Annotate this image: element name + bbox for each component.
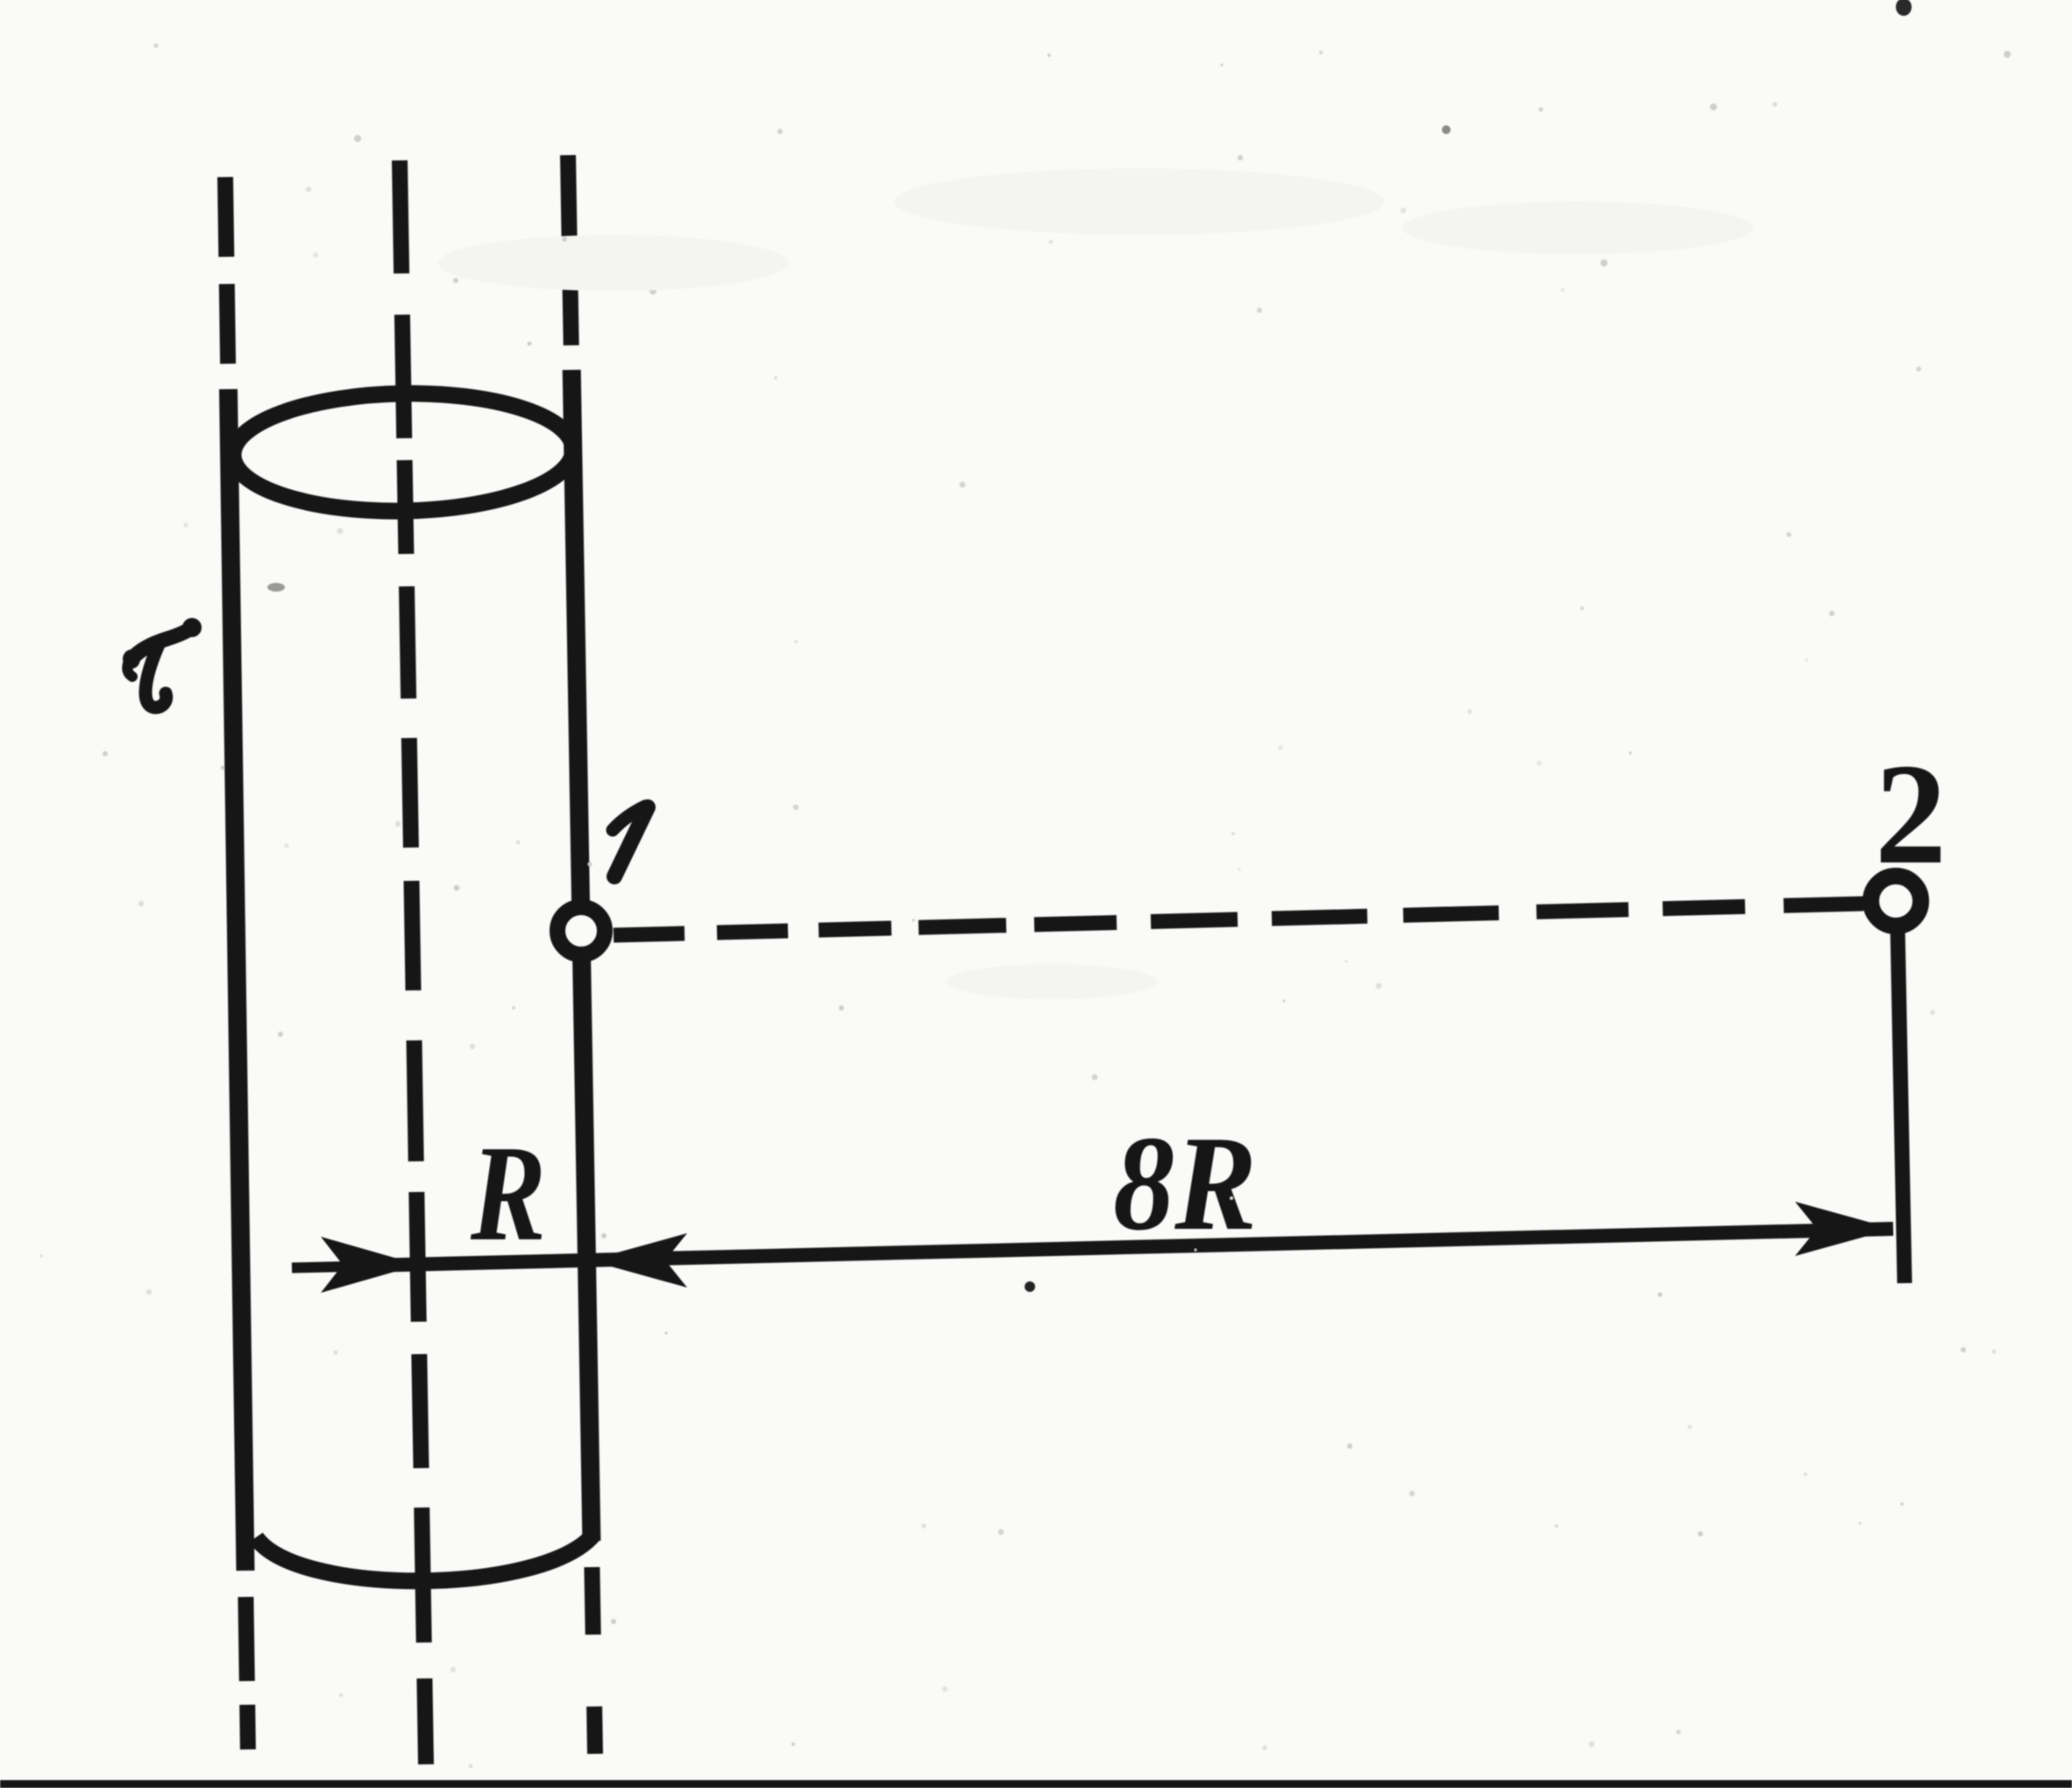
right surface dashed extension (above and below cylinder): [568, 155, 595, 1754]
point 2 (small circle): [1871, 876, 1921, 926]
arrowhead at cylinder right edge, pointing left (R dimension): [589, 1233, 687, 1288]
svg-text:2: 2: [1875, 734, 1947, 894]
dashed sight line from point 1 to point 2: [614, 904, 1863, 935]
drop line below point 2: [1898, 927, 1905, 1283]
tau right terminal blob: [182, 618, 202, 637]
scanner black bar at bottom edge: [0, 1780, 2072, 1788]
dimension line tail left of R arrow: [292, 1266, 349, 1268]
svg-text:R: R: [470, 1117, 546, 1269]
scan speck at top right: [1896, 0, 1912, 16]
svg-text:8R: 8R: [1113, 1108, 1257, 1259]
cylinder top ellipse: [232, 391, 574, 514]
cylinder bottom arc: [256, 1534, 594, 1581]
dimension line (R and 8R): [343, 1229, 1893, 1266]
arrowhead at axis, pointing right (R dimension): [321, 1237, 419, 1293]
cylinder right edge (solid): [571, 370, 592, 1541]
cylinder left edge (solid): [229, 389, 246, 1571]
tau left entry blob: [123, 649, 140, 669]
left surface dashed extension (above and below cylinder): [225, 177, 248, 1749]
bleed-through ghost band: [438, 168, 1753, 999]
axis dashed line (cylinder axis): [400, 160, 426, 1764]
label tau (linear charge density): [127, 627, 194, 707]
ink dot below dimension line: [1025, 1281, 1035, 1292]
point 1 (small circle on cylinder edge): [557, 907, 605, 954]
label 1 (at point 1): [613, 806, 648, 876]
arrowhead at point-2 drop line, pointing right (8R dimension): [1795, 1202, 1893, 1256]
